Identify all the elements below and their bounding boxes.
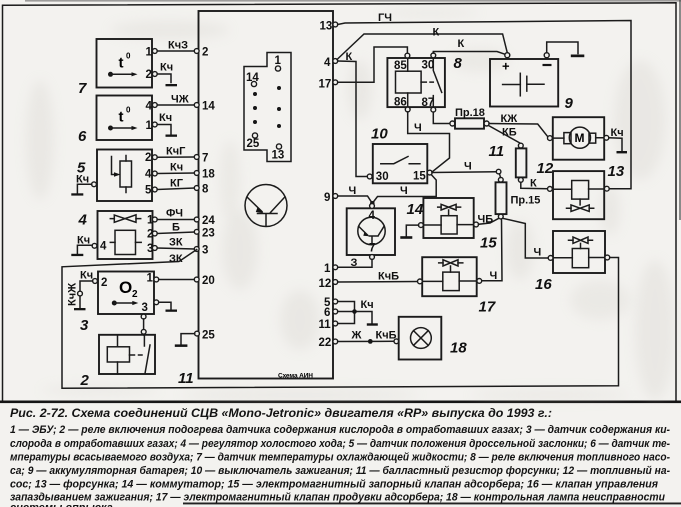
wire ЗК ECU3-valve16 perimeter (62, 250, 619, 389)
svg-text:Кч: Кч (611, 127, 624, 139)
svg-text:2: 2 (202, 47, 208, 59)
svg-text:30: 30 (422, 60, 435, 72)
wire ECU25-ground (175, 334, 195, 347)
canister purge valve 17 (418, 257, 482, 296)
ECU right pin 17 (319, 79, 338, 91)
ECU right pins 5 6 11 (319, 297, 338, 331)
wire Кч 6.1-ground (152, 112, 177, 137)
wire КЖ fuse18-pump12 (489, 113, 547, 137)
svg-text:Ж: Ж (351, 330, 362, 342)
svg-text:2: 2 (80, 372, 90, 389)
svg-text:1: 1 (147, 273, 154, 285)
wire ФЧ 4.1-ECU24 (152, 208, 215, 228)
wire Ч fuse15-valve16 (503, 218, 549, 258)
svg-text:13: 13 (320, 21, 333, 33)
ECU right pin 22 (319, 337, 338, 349)
svg-text:14: 14 (202, 101, 215, 113)
canister shutoff valve 15 (419, 198, 479, 238)
svg-text:O: O (119, 278, 132, 297)
svg-text:Кч: Кч (77, 235, 90, 247)
fuse Пр.18 (450, 107, 489, 129)
svg-text:1: 1 (146, 47, 153, 59)
svg-text:Схема АИН: Схема АИН (278, 373, 313, 380)
svg-text:30: 30 (376, 171, 389, 183)
svg-text:3: 3 (202, 245, 208, 257)
svg-text:ГЧ: ГЧ (378, 12, 392, 24)
wire Ч relay8.86-ignition15 (408, 112, 450, 172)
svg-text:1: 1 (275, 55, 282, 67)
svg-text:24: 24 (202, 215, 215, 227)
svg-text:+: + (502, 59, 510, 74)
wire ЗК 4.3-ECU3 (152, 237, 208, 257)
svg-text:Пр.15: Пр.15 (511, 195, 541, 207)
ECU pin 25 (195, 330, 216, 342)
svg-text:Кч: Кч (160, 62, 173, 74)
ECU U1 box (199, 11, 334, 379)
svg-text:КЖ: КЖ (501, 113, 518, 125)
svg-text:25: 25 (247, 138, 260, 150)
wire КчГ 5.2-ECU7 (152, 146, 208, 165)
commutator 14 (347, 204, 395, 260)
wire Ч ECU9-junction-ignition15 (338, 174, 437, 205)
svg-text:8: 8 (202, 184, 209, 196)
svg-text:7: 7 (369, 243, 375, 255)
svg-text:20: 20 (202, 275, 215, 287)
svg-text:ЧЖ: ЧЖ (171, 94, 189, 106)
svg-text:11: 11 (319, 319, 332, 331)
svg-text:10: 10 (371, 126, 388, 143)
svg-text:0: 0 (126, 52, 131, 61)
svg-text:Ч: Ч (414, 122, 422, 134)
svg-text:системы впрыска: системы впрыска (10, 502, 113, 507)
svg-text:Рис. 2-72. Схема соединений СЦ: Рис. 2-72. Схема соединений СЦВ «Mono-Je… (10, 408, 552, 420)
O2 sensor 3 (98, 272, 154, 315)
wire O2.1-ECU20 (154, 275, 215, 287)
svg-text:13: 13 (608, 163, 625, 180)
svg-text:4: 4 (324, 57, 331, 69)
wire К ECU4-battery+ (337, 27, 507, 64)
svg-text:слорода в отработавших газах;: слорода в отработавших газах; 4 — регуля… (10, 438, 670, 450)
svg-text:15: 15 (413, 171, 426, 183)
battery 9 (490, 53, 558, 107)
svg-text:7: 7 (78, 80, 87, 97)
svg-text:4: 4 (100, 241, 107, 253)
svg-text:сос; 13 — форсунка; 14 — комму: сос; 13 — форсунка; 14 — коммутатор; 15 … (10, 479, 659, 491)
wire ЧБ valve15-fuse15 (478, 214, 499, 226)
svg-text:З: З (351, 257, 358, 269)
wire battery- ground (547, 42, 585, 57)
wire O2.3-relay2 (141, 314, 146, 335)
svg-text:4: 4 (145, 169, 152, 181)
wire Ж КчБ ECU22-lamp18 (338, 330, 399, 344)
wire К relay8.30-battery+ (433, 38, 505, 54)
wire Кч 7.2-ground (152, 62, 177, 87)
ballast resistor 11 (516, 143, 527, 182)
svg-text:Кч: Кч (159, 112, 172, 124)
svg-text:11: 11 (489, 143, 505, 160)
svg-text:КГ: КГ (170, 178, 184, 190)
svg-text:Пр.18: Пр.18 (455, 107, 485, 119)
svg-text:Кч: Кч (170, 162, 183, 174)
wire Б 4.2-ECU23 (152, 222, 214, 240)
sensor box 7 (coolant temp) (97, 39, 153, 88)
svg-text:ФЧ: ФЧ (166, 208, 183, 220)
wire КчЗ 7.1-ECU2 (152, 40, 208, 59)
wire Кч 5.4-ECU18 (152, 162, 215, 181)
svg-text:са; 9 — аккумуляторная батарея: са; 9 — аккумуляторная батарея; 10 — вык… (10, 465, 670, 477)
svg-text:КчГ: КчГ (166, 146, 186, 158)
wire Кч pump-ground (609, 127, 627, 153)
fuel pump motor 12 (548, 117, 609, 160)
idle speed regulator 4 (98, 211, 155, 259)
ECU right pin 1 (324, 263, 338, 275)
wire ECU4-ignition30 (338, 61, 368, 177)
svg-text:Ч: Ч (349, 185, 357, 197)
svg-text:ЧБ: ЧБ (478, 214, 494, 226)
svg-text:2: 2 (101, 277, 107, 289)
svg-text:11: 11 (178, 370, 194, 387)
svg-text:КчЗ: КчЗ (168, 40, 188, 52)
svg-text:17: 17 (479, 299, 496, 316)
svg-text:25: 25 (202, 330, 215, 342)
ECU output transistor (245, 185, 287, 227)
wire relay8.87-fuse Пр.18 (433, 112, 450, 123)
svg-text:85: 85 (394, 60, 407, 72)
svg-text:t: t (119, 55, 124, 72)
wire К ballast-injector13 (521, 178, 548, 190)
svg-text:18: 18 (450, 340, 467, 357)
svg-text:1 — ЭБУ; 2 — реле включения по: 1 — ЭБУ; 2 — реле включения подогрева да… (10, 424, 670, 436)
svg-text:15: 15 (480, 235, 497, 252)
wire Кч 5-ground left (71, 174, 96, 196)
svg-text:17: 17 (319, 79, 332, 91)
svg-text:1: 1 (146, 120, 153, 132)
svg-text:2: 2 (145, 152, 151, 164)
svg-text:3: 3 (142, 302, 148, 314)
svg-text:18: 18 (202, 169, 215, 181)
wire КчБ ECU12-valve17 (338, 271, 418, 283)
svg-text:Ч: Ч (464, 161, 472, 173)
O2 heater relay 2 (99, 335, 155, 374)
svg-text:Ч: Ч (490, 270, 498, 282)
svg-text:Б: Б (172, 222, 180, 234)
svg-text:14: 14 (407, 201, 424, 218)
svg-text:Ч: Ч (400, 185, 408, 197)
wire valve15-ground (400, 225, 418, 239)
wire O2 case-ground right (154, 300, 177, 312)
svg-text:9: 9 (565, 95, 574, 112)
wire Кч КчЖ O2.2-ground left (67, 270, 98, 311)
wire Кч 4.4-ground (71, 235, 97, 257)
warning lamp 18 (399, 317, 442, 360)
svg-text:Кч: Кч (76, 174, 89, 186)
svg-text:t: t (119, 109, 124, 126)
wire З commutator7-ECU1 (338, 257, 372, 269)
svg-text:16: 16 (535, 276, 552, 293)
svg-text:4: 4 (369, 210, 376, 222)
svg-text:0: 0 (126, 106, 131, 115)
svg-text:22: 22 (319, 337, 332, 349)
svg-text:К: К (458, 38, 465, 50)
throttle position sensor 5 (97, 150, 152, 202)
svg-text:1: 1 (324, 263, 331, 275)
ECU right pin 4 (324, 57, 338, 69)
svg-text:3: 3 (80, 317, 89, 334)
sensor box 6 (intake air temp) (97, 96, 153, 141)
ignition retard valve 16 (548, 231, 610, 273)
wire Кч ECU5-6-11 ground (338, 299, 378, 326)
wire Ч fuse15-valve17 (482, 219, 503, 282)
ECU connector X1 (244, 53, 291, 162)
svg-text:М: М (575, 131, 585, 145)
svg-text:4: 4 (146, 101, 153, 113)
svg-text:2: 2 (132, 289, 138, 300)
wire ЧЖ 6.4-ECU14 (152, 94, 215, 113)
ECU right pin 12 (319, 278, 338, 290)
svg-text:ЗК: ЗК (169, 237, 183, 249)
wire КГ 5.5-ECU8 (152, 178, 209, 196)
svg-text:12: 12 (537, 160, 554, 177)
injector 13 (548, 171, 610, 219)
ECU right pin 9 (324, 192, 338, 204)
svg-text:КчЖ: КчЖ (67, 283, 79, 306)
ignition switch 10 (367, 144, 432, 183)
svg-text:86: 86 (394, 97, 407, 109)
svg-text:6: 6 (78, 128, 87, 145)
svg-text:4: 4 (78, 212, 88, 229)
fuel pump relay 8 (387, 53, 445, 112)
caption separator scan line bottom (183, 503, 681, 505)
svg-text:6: 6 (324, 307, 330, 319)
svg-text:9: 9 (324, 192, 330, 204)
svg-text:КБ: КБ (502, 127, 517, 139)
wire Ч ignition15-fuse15 (432, 161, 501, 178)
svg-text:К: К (530, 178, 537, 190)
wire ГЧ ECU13-injector13 (338, 12, 631, 189)
svg-text:Кч: Кч (80, 270, 93, 282)
ECU right pin 13 (320, 21, 338, 33)
svg-text:5: 5 (145, 185, 152, 197)
svg-text:мпературы всасываемого воздуха: мпературы всасываемого воздуха; 7 — датч… (10, 452, 670, 464)
svg-text:КчБ: КчБ (376, 330, 397, 342)
svg-text:13: 13 (272, 150, 285, 162)
wire ECU17-relay8.85 (338, 47, 408, 82)
svg-text:2: 2 (146, 69, 152, 81)
svg-text:23: 23 (202, 228, 215, 240)
svg-text:Ч: Ч (534, 247, 542, 259)
svg-text:8: 8 (454, 55, 463, 72)
svg-text:7: 7 (202, 153, 208, 165)
svg-text:ЗК: ЗК (169, 253, 183, 265)
svg-text:Кч: Кч (361, 299, 374, 311)
wire КБ fuse18-ballast11 (489, 126, 521, 144)
svg-text:12: 12 (319, 278, 332, 290)
svg-text:К: К (433, 27, 440, 39)
fuse Пр.15 (496, 177, 541, 219)
svg-text:КчБ: КчБ (378, 271, 399, 283)
